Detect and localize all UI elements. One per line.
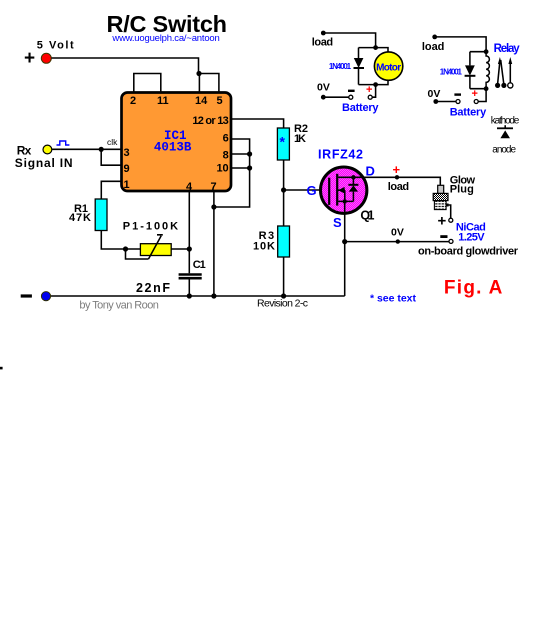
- wire Rx to pin 3: [52, 148, 122, 150]
- svg-text:Motor: Motor: [376, 62, 401, 73]
- node pin10: [247, 165, 252, 170]
- wire 0V battery2: [436, 101, 456, 103]
- node 5V junction: [196, 71, 201, 76]
- node rail C1: [187, 293, 192, 298]
- relay contact 2: [501, 83, 506, 88]
- svg-text:1: 1: [124, 179, 130, 191]
- svg-text:5 Volt: 5 Volt: [37, 40, 74, 52]
- relay contact 1: [495, 83, 500, 88]
- glow plug element: [434, 201, 446, 210]
- svg-text:Q1: Q1: [360, 209, 374, 223]
- wire pin 12or13 to R2: [231, 119, 284, 128]
- svg-text:Battery: Battery: [342, 102, 379, 114]
- svg-text:10K: 10K: [253, 241, 275, 253]
- svg-text:0V: 0V: [317, 82, 330, 94]
- svg-text:10: 10: [216, 163, 228, 175]
- resistor R1: [95, 199, 107, 231]
- wire gate node down to R3: [283, 190, 285, 226]
- wire pin 1 to R1: [101, 181, 121, 199]
- svg-text:+: +: [393, 162, 401, 177]
- minus dash battery2: [454, 93, 461, 95]
- svg-text:3: 3: [124, 147, 130, 159]
- svg-text:+: +: [24, 48, 35, 69]
- node P1-C1 junction: [187, 246, 192, 251]
- wire drain to glow plug: [367, 177, 440, 185]
- wire pins 6 8 10: [214, 139, 250, 207]
- mosfet source stub: [337, 200, 353, 202]
- svg-text:kathode: kathode: [491, 116, 520, 127]
- node source 0V junction: [342, 239, 347, 244]
- node source junction: [343, 199, 347, 203]
- svg-text:47K: 47K: [69, 212, 91, 224]
- terminal battery1 -: [349, 95, 353, 99]
- wire load1 down: [323, 33, 375, 48]
- terminal NiCad +: [449, 218, 453, 222]
- svg-text:9: 9: [124, 163, 130, 175]
- wire P1 to pin4 column: [171, 248, 189, 250]
- terminal load 2: [432, 35, 437, 40]
- minus dash battery1: [348, 90, 355, 92]
- potentiometer P1: [140, 244, 171, 256]
- mosfet Q1 body: [321, 167, 367, 213]
- wire to pin 9: [101, 149, 121, 165]
- svg-text:*: *: [280, 134, 286, 150]
- wire source to 0V: [344, 201, 346, 296]
- diode 1N4001 (motor): [358, 48, 360, 58]
- wire C1 to rail: [188, 280, 190, 297]
- terminal NiCad -: [449, 239, 453, 243]
- svg-text:Signal IN: Signal IN: [15, 156, 73, 170]
- wire 0V to NiCad minus: [345, 241, 450, 243]
- node rail R3: [281, 293, 286, 298]
- svg-text:1N4001: 1N4001: [440, 68, 463, 77]
- stray mark left edge: [0, 367, 3, 370]
- terminal battery1 +: [368, 95, 372, 99]
- resistor R3: [278, 226, 290, 257]
- svg-text:2: 2: [130, 95, 136, 107]
- node pin7 junction: [211, 204, 216, 209]
- node coil bottom: [484, 86, 489, 91]
- node 0V measure: [396, 239, 400, 243]
- wire to battery +: [372, 85, 375, 98]
- svg-text:+: +: [366, 84, 372, 96]
- wiper arrow P1: [149, 235, 163, 259]
- node rail pin7: [211, 293, 216, 298]
- wire wiper loop: [126, 249, 149, 259]
- body diode D1: [352, 177, 354, 185]
- minus dash NiCad: [440, 235, 447, 238]
- wire glowplug to +: [448, 205, 450, 218]
- terminal Rx input (yellow): [43, 145, 52, 154]
- wire motor top rail: [359, 48, 389, 53]
- svg-text:+: +: [472, 88, 478, 100]
- svg-text:* see text: * see text: [370, 293, 417, 305]
- node clk junction: [99, 147, 104, 152]
- svg-text:load: load: [312, 37, 333, 49]
- svg-text:anode: anode: [492, 145, 516, 156]
- capacitor C1: [179, 275, 202, 279]
- diode 1N4001 (relay): [469, 52, 471, 66]
- node load measure: [395, 175, 399, 179]
- glow plug body: [433, 193, 448, 200]
- mosfet gate bar: [328, 178, 330, 205]
- svg-text:22nF: 22nF: [136, 281, 170, 295]
- svg-text:S: S: [333, 215, 342, 230]
- svg-text:on-board glowdriver: on-board glowdriver: [418, 246, 519, 258]
- svg-text:5: 5: [217, 95, 223, 107]
- svg-text:D: D: [366, 164, 375, 179]
- svg-text:Battery: Battery: [450, 107, 487, 119]
- wire 5V to IC top: [52, 58, 199, 74]
- wire diode2 bottom rail: [470, 88, 486, 90]
- svg-text:0V: 0V: [391, 227, 404, 239]
- svg-text:load: load: [422, 41, 445, 53]
- wire pin 4 down to C1: [188, 191, 190, 274]
- svg-text:1N4001: 1N4001: [329, 62, 352, 71]
- terminal battery2 -: [456, 100, 460, 104]
- svg-text:1K: 1K: [294, 133, 306, 145]
- wire bracket pins 2-11: [134, 74, 161, 93]
- terminal 0V battery1: [321, 95, 326, 100]
- IC U1 4013B body: [122, 93, 232, 192]
- ground rail: [46, 295, 345, 297]
- mosfet drain stub: [337, 176, 367, 178]
- node motor top: [373, 45, 378, 50]
- svg-text:C1: C1: [193, 259, 206, 271]
- glow plug terminal: [438, 185, 444, 193]
- svg-text:4013B: 4013B: [154, 141, 192, 155]
- motor M1: [374, 52, 402, 80]
- wire coil to battery2 +: [478, 89, 486, 102]
- resistor R2: [277, 128, 289, 160]
- svg-text:0V: 0V: [428, 88, 441, 100]
- node R1-P1 junction: [123, 246, 128, 251]
- svg-text:+: +: [438, 213, 447, 230]
- svg-text:6: 6: [223, 133, 229, 145]
- terminal 0V battery2: [433, 99, 438, 104]
- svg-text:by Tony van Roon: by Tony van Roon: [79, 300, 158, 312]
- svg-text:clk: clk: [107, 137, 118, 147]
- relay coil K1: [486, 52, 489, 89]
- wire R2 to gate: [284, 160, 330, 190]
- node gate junction: [281, 187, 286, 192]
- mosfet channel bar: [336, 174, 338, 206]
- minus dash: [21, 294, 32, 297]
- mosfet body arrow: [337, 190, 345, 201]
- terminal battery2 +: [474, 100, 478, 104]
- wire R1 to P1: [101, 231, 140, 250]
- wire 0V battery1: [323, 96, 348, 98]
- node drain-diode: [351, 175, 355, 179]
- wire load2 down: [435, 37, 486, 52]
- svg-text:14: 14: [195, 95, 208, 107]
- relay contact 3: [508, 83, 513, 88]
- glow plug tab: [446, 204, 449, 207]
- svg-text:Revision 2-c: Revision 2-c: [257, 298, 308, 310]
- svg-text:Relay: Relay: [494, 43, 521, 55]
- svg-text:load: load: [388, 181, 409, 193]
- svg-text:www.uoguelph.ca/~antoon: www.uoguelph.ca/~antoon: [111, 33, 219, 44]
- svg-text:8: 8: [223, 150, 229, 162]
- wire R3 to rail: [283, 257, 285, 296]
- diode orientation symbol: [497, 127, 513, 129]
- node coil top: [484, 49, 489, 54]
- terminal 5V (red): [41, 53, 51, 63]
- svg-text:11: 11: [157, 95, 169, 107]
- pulse symbol: [57, 141, 70, 145]
- svg-text:Fig. A: Fig. A: [444, 278, 503, 299]
- wire motor bottom rail: [359, 80, 389, 85]
- svg-text:IRFZ42: IRFZ42: [318, 148, 363, 162]
- svg-text:1.25V: 1.25V: [458, 232, 485, 244]
- wire diode2 top rail: [470, 51, 486, 53]
- wire pin 7 down to rail: [213, 191, 215, 296]
- wire bracket pins 14-5: [199, 74, 219, 93]
- node motor bottom: [373, 82, 378, 87]
- node pin8: [247, 151, 252, 156]
- svg-text:Plug: Plug: [450, 184, 474, 196]
- svg-text:12 or 13: 12 or 13: [192, 115, 228, 127]
- terminal minus (blue): [41, 292, 50, 301]
- svg-text:G: G: [307, 183, 317, 198]
- terminal load 1: [321, 31, 326, 36]
